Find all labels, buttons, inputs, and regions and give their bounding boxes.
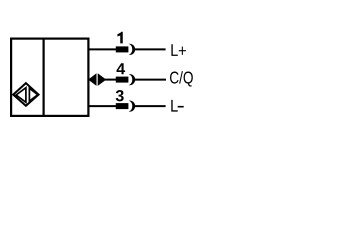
wire pin1 to L+ — [135, 48, 166, 50]
wire pin3 to L- — [135, 105, 166, 107]
net label L+ — [171, 44, 186, 56]
bidirectional arrow C/Q right triangle — [98, 73, 107, 86]
sensor body — [11, 39, 88, 116]
connector pin 4 socket — [129, 74, 135, 85]
net label C/Q — [170, 71, 193, 87]
pin number 4 — [117, 63, 126, 74]
wire pin4 from arrow to plug — [105, 79, 117, 81]
connector pin 3 socket — [129, 100, 135, 111]
connector pin 1 plug contact — [116, 46, 129, 52]
bidirectional arrow C/Q left triangle — [88, 73, 96, 86]
connector pin 4 plug contact — [116, 77, 129, 83]
proximity sensor symbol left triangle — [16, 88, 26, 103]
proximity sensor symbol right triangle — [29, 88, 37, 101]
pin number 1 — [117, 32, 122, 44]
pin number 3 — [116, 90, 124, 101]
net label L- — [171, 100, 183, 112]
proximity sensor symbol diamond — [13, 83, 38, 106]
wire pin1 from body to plug — [89, 48, 117, 50]
connector pin 3 plug contact — [116, 103, 129, 109]
wire pin4 to C/Q — [135, 79, 167, 81]
wire pin3 from body to plug — [89, 105, 117, 107]
sensor body divider — [42, 39, 44, 116]
connector pin 1 socket — [129, 44, 135, 55]
